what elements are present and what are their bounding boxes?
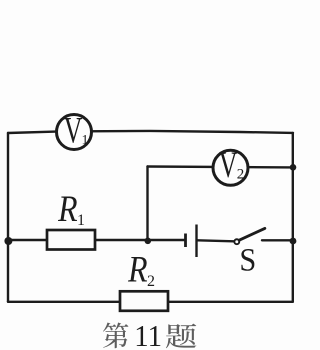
node junction left xyxy=(4,237,12,245)
wire switch-right xyxy=(262,239,293,241)
svg-text:S: S xyxy=(239,241,256,277)
svg-text:R: R xyxy=(57,189,77,230)
svg-text:1: 1 xyxy=(82,133,89,148)
svg-text:1: 1 xyxy=(77,212,85,229)
node junction right-V2 xyxy=(290,164,297,171)
caption char DI xyxy=(103,323,128,349)
switch pivot xyxy=(234,239,239,244)
switch lever xyxy=(239,228,265,240)
svg-text:V: V xyxy=(64,109,83,151)
voltmeter V2 xyxy=(213,145,248,186)
wire middle R1-battery xyxy=(8,239,185,241)
wire bottom xyxy=(8,301,293,303)
label R1 xyxy=(57,189,85,230)
wire top xyxy=(8,131,293,133)
svg-text:R: R xyxy=(127,249,147,290)
wire V2 horizontal xyxy=(148,165,293,168)
node junction right-switch xyxy=(290,238,297,245)
svg-text:2: 2 xyxy=(147,273,155,290)
resistor R2 xyxy=(120,291,168,311)
svg-text:11: 11 xyxy=(134,319,162,350)
caption char TI xyxy=(166,324,196,349)
battery long plate xyxy=(195,225,197,258)
label R2 xyxy=(127,249,155,290)
node junction branch xyxy=(145,238,152,245)
svg-text:2: 2 xyxy=(237,166,245,182)
wire V2 branch vertical xyxy=(146,167,148,241)
wire battery-switch xyxy=(198,240,234,241)
wire right vertical xyxy=(292,133,294,302)
battery short plate xyxy=(184,234,187,248)
svg-text:V: V xyxy=(219,145,238,186)
voltmeter V1 xyxy=(57,109,92,151)
resistor R1 xyxy=(47,230,95,250)
wire left vertical xyxy=(7,133,9,302)
